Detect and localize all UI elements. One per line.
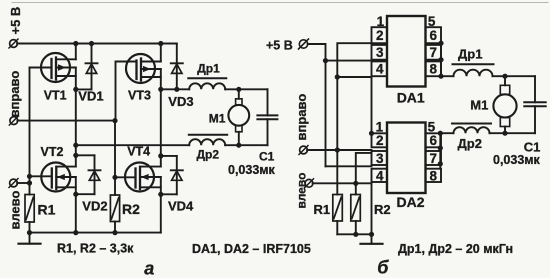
- wire motor bottom (left): [225, 144, 267, 146]
- junction VT1 source on rail: [73, 41, 78, 46]
- svg-text:5: 5: [428, 14, 436, 29]
- svg-text:6: 6: [430, 28, 438, 43]
- wire gate bus right (VT3 gate - R2): [114, 121, 116, 195]
- svg-text:С1: С1: [259, 149, 275, 163]
- wire DA1 pin4 to DA2 pin1: [371, 77, 373, 133]
- wire node L vertical: [75, 89, 77, 166]
- junction vpravo to gates VT3 VT4: [112, 118, 117, 123]
- scan artifact top line: [12, 2, 548, 4]
- terminal vlevo (right): [305, 179, 313, 187]
- junction DA1 pin7: [438, 57, 443, 62]
- svg-text:VT2: VT2: [41, 145, 64, 159]
- junction VT3 source on rail: [158, 41, 163, 46]
- wire ground bus (right): [337, 233, 371, 235]
- junction motor top (left): [236, 87, 241, 92]
- svg-text:DA1: DA1: [397, 90, 425, 106]
- svg-text:R1: R1: [314, 202, 331, 217]
- wire node R vertical: [160, 89, 162, 166]
- resistor R1 (right): [333, 195, 343, 235]
- IC DA2: [372, 123, 442, 194]
- junction R2 ground: [112, 230, 117, 235]
- svg-text:Др1: Др1: [197, 61, 220, 75]
- svg-text:2: 2: [376, 28, 384, 43]
- svg-text:7: 7: [430, 151, 438, 166]
- junction DA1 pin6: [438, 41, 443, 46]
- diode VD1: [86, 44, 98, 90]
- junction R2 ground (right): [353, 232, 358, 237]
- wire VT3 source to rail: [160, 44, 162, 62]
- svg-text:VD2: VD2: [82, 198, 107, 213]
- IC DA1: [372, 16, 442, 87]
- wire DA1 pin2 to vertical B: [337, 43, 371, 194]
- svg-text:М1: М1: [470, 98, 488, 113]
- wire vpravo (right) to DA2 pin2: [307, 149, 371, 151]
- junction node R: [158, 87, 163, 92]
- capacitor C1 (left): [257, 89, 277, 145]
- wire A to DA1 pin3: [326, 60, 372, 62]
- junction VT2 gate: [27, 174, 32, 179]
- wire vertical C (DA2 pin3 - R2): [356, 153, 372, 195]
- junction R1 ground: [27, 230, 32, 235]
- transistor VT3: [116, 54, 161, 121]
- svg-text:7: 7: [430, 45, 438, 60]
- ground (left circuit): [19, 233, 41, 244]
- terminal +5V (left): [10, 40, 18, 48]
- junction vlevo R2: [353, 181, 358, 186]
- svg-text:вправо: вправо: [294, 94, 309, 141]
- junction DA1 pin8: [438, 74, 443, 79]
- svg-text:б: б: [377, 258, 389, 278]
- junction DA2 pin5: [438, 131, 443, 136]
- svg-text:DA2: DA2: [397, 194, 425, 210]
- svg-text:VT3: VT3: [128, 89, 151, 103]
- svg-text:влево: влево: [295, 173, 309, 209]
- wire VT4 source to ground: [160, 177, 162, 233]
- svg-text:8: 8: [430, 62, 438, 77]
- junction node R to VD4: [158, 153, 163, 158]
- wire motor bottom rail (right): [440, 132, 453, 134]
- junction motor bottom (left): [236, 143, 241, 148]
- svg-text:3: 3: [376, 45, 384, 60]
- junction B vpravo/DA2 pin2: [335, 147, 340, 152]
- wire node R horizontal: [161, 88, 189, 90]
- resistor R2 (right): [351, 195, 361, 235]
- junction VD1 on rail: [89, 41, 94, 46]
- terminal vpravo (left): [10, 117, 18, 125]
- motor M1 (left): [228, 89, 249, 145]
- terminal +5V (right): [299, 40, 307, 48]
- wire vpravo: [17, 120, 115, 122]
- svg-text:Др2: Др2: [458, 136, 482, 151]
- wire B to DA1 pin4: [337, 76, 371, 78]
- wire VT1 drain down: [75, 68, 77, 90]
- wire VT2 source to ground: [75, 177, 77, 233]
- svg-text:Др1, Др2 – 20 мкГн: Др1, Др2 – 20 мкГн: [398, 242, 513, 256]
- svg-text:R1: R1: [38, 201, 56, 217]
- junction VT4 gate: [112, 175, 117, 180]
- wire choke Dr2 to capacitor (right): [490, 132, 536, 134]
- wire A to DA2 pin3 bottom: [326, 165, 372, 167]
- capacitor C1 (right): [524, 76, 545, 133]
- wire VT3 drain down: [160, 69, 162, 89]
- wire DA2 outputs vertical: [439, 133, 441, 169]
- resistor R2: [110, 195, 119, 233]
- svg-text:а: а: [144, 259, 154, 278]
- wire vlevo (right) to DA2 pin4: [313, 182, 372, 184]
- junction node L to choke Dr2: [73, 143, 78, 148]
- junction node L to VD2: [73, 153, 78, 158]
- resistor R1: [25, 195, 34, 233]
- ground (right circuit): [361, 234, 383, 244]
- transistor VT4: [115, 163, 161, 192]
- junction DA2 pin7: [438, 161, 443, 166]
- svg-text:R2: R2: [122, 201, 140, 217]
- junction VT2 ground: [73, 230, 78, 235]
- junction vlevo: [27, 180, 32, 185]
- svg-text:0,033мк: 0,033мк: [228, 163, 276, 177]
- svg-text:VT1: VT1: [44, 89, 67, 103]
- junction DA2 pin6: [438, 145, 443, 150]
- svg-text:+5 В: +5 В: [266, 39, 293, 53]
- svg-text:0,033мк: 0,033мк: [493, 153, 541, 167]
- svg-text:R2: R2: [374, 202, 391, 217]
- svg-text:Др1: Др1: [458, 47, 482, 62]
- terminal vpravo (right): [300, 146, 308, 154]
- wire node L horizontal: [76, 88, 92, 90]
- wire choke to capacitor branch (right top): [493, 75, 536, 77]
- wire +5V rail: [17, 43, 177, 45]
- svg-text:4: 4: [376, 168, 384, 183]
- motor M1 (right): [493, 76, 516, 133]
- diode VD2: [76, 155, 101, 194]
- svg-text:2: 2: [376, 133, 384, 148]
- transistor VT2: [30, 163, 76, 192]
- svg-text:VD4: VD4: [168, 198, 194, 213]
- inductor Dr2 (right): [452, 124, 491, 134]
- wire +5V to vertical A: [308, 44, 326, 166]
- inductor Dr1 (right): [453, 64, 494, 76]
- wire vlevo to ground (right): [371, 183, 373, 234]
- svg-text:М1: М1: [209, 111, 226, 125]
- junction DA2 pin1: [369, 131, 374, 136]
- svg-text:Др2: Др2: [197, 147, 220, 161]
- svg-text:3: 3: [376, 151, 384, 166]
- svg-text:4: 4: [376, 62, 384, 77]
- wire node L to choke Dr2 (left): [76, 144, 189, 146]
- junction motor bottom (right): [502, 131, 507, 136]
- svg-text:R1, R2 – 3,3к: R1, R2 – 3,3к: [57, 241, 134, 255]
- wire DA1 outputs vertical: [440, 43, 442, 76]
- junction B pin4 DA1: [335, 74, 340, 79]
- transistor VT1: [30, 53, 76, 82]
- wire ground rail (left circuit): [30, 232, 161, 234]
- svg-text:DA1, DA2 – IRF7105: DA1, DA2 – IRF7105: [192, 242, 311, 256]
- wire node R to motor: [225, 88, 267, 90]
- svg-text:+5 В: +5 В: [8, 7, 23, 35]
- junction motor top (right): [502, 74, 507, 79]
- junction VD3 bottom: [174, 87, 179, 92]
- diode VD4: [161, 156, 183, 194]
- wire gate bus left: [29, 68, 31, 195]
- wire DA1 output to choke: [441, 75, 454, 77]
- junction A pin3 DA1: [323, 58, 328, 63]
- junction node L: [73, 87, 78, 92]
- svg-text:влево: влево: [8, 191, 23, 230]
- svg-text:VD1: VD1: [78, 89, 103, 104]
- junction VD4 to VT4 source: [158, 192, 163, 197]
- terminal vlevo (left): [10, 179, 18, 187]
- inductor Dr1 (left): [188, 78, 226, 89]
- inductor Dr2 (left): [189, 135, 227, 145]
- svg-text:VD3: VD3: [168, 94, 193, 109]
- svg-text:1: 1: [377, 14, 385, 29]
- svg-text:6: 6: [430, 133, 438, 148]
- wire vlevo: [17, 182, 29, 184]
- junction VD2 to VT2 source: [73, 192, 78, 197]
- svg-text:8: 8: [430, 168, 438, 183]
- svg-text:вправо: вправо: [7, 71, 22, 118]
- junction ground stem (right): [369, 232, 374, 237]
- wire VT1 source to rail: [75, 44, 77, 60]
- svg-text:VT4: VT4: [127, 145, 150, 159]
- diode VD3: [171, 44, 183, 90]
